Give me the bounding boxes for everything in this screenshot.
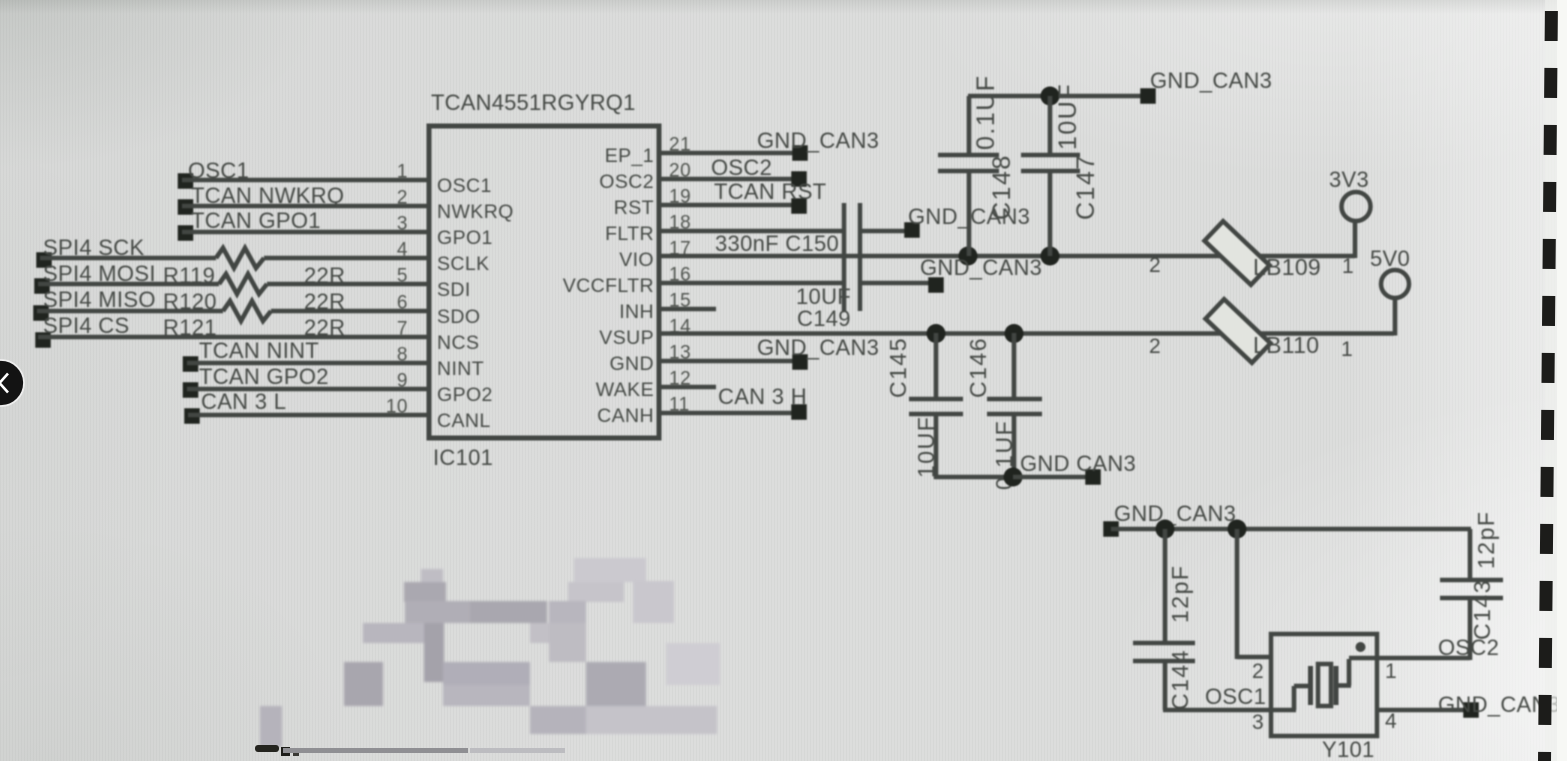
net label OSC2 crystal — [1438, 635, 1499, 660]
wire pin13 GND — [659, 359, 800, 364]
wire crystal pin4 ground — [1377, 708, 1464, 713]
capacitor C146 value label — [991, 420, 1017, 490]
wire pin5 SDI left — [38, 282, 219, 287]
node TCAN_GPO1 pad — [178, 225, 194, 241]
resistor R120 22R — [219, 274, 267, 294]
net label SPI4 MISO — [43, 287, 156, 312]
node C146 bottom junction — [1004, 468, 1023, 487]
wire pin2 NWKRQ — [182, 204, 429, 209]
net label GND_CAN3 pin13 — [757, 335, 879, 360]
node VSUP junction C146 — [1005, 324, 1024, 343]
ground GND_CAN3 pad bottom caps — [1085, 469, 1101, 485]
ground GND_CAN3 pad pin13 — [792, 354, 808, 370]
capacitor C143 12pF — [1440, 529, 1503, 660]
wire pin4 SCLK left — [40, 256, 216, 261]
capacitor C145 10UF — [909, 333, 963, 479]
net label OSC2 pin20 — [711, 155, 772, 180]
wire pin19 RST — [659, 203, 806, 208]
node TCAN_NINT pad — [183, 356, 199, 372]
capacitor C149 refdes — [797, 306, 851, 331]
resistor R120 refdes — [163, 289, 217, 314]
capacitor C147 refdes label — [1072, 154, 1100, 220]
net label GND_CAN3 top — [1150, 68, 1272, 93]
wire OSC1 to crystal pin3 — [1163, 708, 1271, 713]
crystal pin3 number — [1252, 711, 1264, 734]
wire pin17 VIO rail — [659, 254, 1355, 259]
net label TCAN NINT — [199, 338, 319, 363]
crystal Y101 pin1 dot — [1356, 642, 1366, 652]
net label CAN 3 H — [718, 384, 807, 409]
crystal Y101 symbol — [1273, 658, 1376, 710]
capacitor C148 0.1UF — [938, 96, 999, 256]
power 3V3 circle — [1342, 192, 1371, 221]
capacitor C144 12pF — [1133, 529, 1195, 710]
IC title TCAN4551RGYRQ1 — [431, 90, 636, 115]
wire crystal ground rail — [1111, 527, 1471, 532]
ferrite bead LB109 — [1204, 221, 1269, 285]
node OSC2 pad pin20 — [791, 171, 807, 187]
wire pin8 NINT — [187, 361, 429, 366]
wire pin1 OSC1 — [182, 178, 429, 183]
wire pin16 VCCFLTR — [659, 281, 844, 286]
node CAN_3_H pad — [791, 404, 807, 420]
net label GND CAN3 bottom caps — [1020, 451, 1136, 476]
capacitor C147 10UF — [1021, 96, 1080, 256]
ground GND_CAN3 pad C150 — [904, 222, 920, 238]
net label CAN 3 L — [201, 389, 286, 414]
net label OSC1 — [188, 158, 249, 183]
ground GND_CAN3 pad crystal pin4 — [1463, 702, 1479, 718]
IC pin names — [437, 145, 654, 432]
bottom-left stray marks — [255, 745, 565, 756]
node VSUP junction C145 — [927, 324, 946, 343]
node crystal rail junction C144 — [1156, 520, 1175, 539]
bead LB109 pin1 label — [1342, 255, 1354, 278]
power 5V0 label — [1370, 246, 1410, 271]
node OSC1 pad — [178, 173, 194, 189]
wire pin20 OSC2 — [659, 177, 806, 182]
op-amp IC101 TCAN4551 body — [429, 126, 659, 438]
net label GND_CAN3 crystal — [1114, 501, 1236, 526]
wire pin12 WAKE stub — [659, 385, 716, 390]
resistor R119 22R — [216, 248, 264, 268]
capacitor C143 refdes label — [1469, 579, 1495, 640]
net label GND_CAN3 crystal pin4 — [1438, 692, 1560, 717]
bead LB109 pin2 label — [1149, 254, 1161, 277]
wire C145 bottom — [934, 475, 1013, 480]
node TCAN_NWKRQ pad — [178, 199, 194, 215]
wire pin9 GPO2 — [187, 387, 429, 392]
resistor R120 value 22R — [304, 289, 345, 314]
wire pin4 SCLK right — [264, 256, 429, 261]
capacitor C144 refdes label — [1167, 649, 1193, 710]
crystal Y101 refdes — [1322, 737, 1375, 761]
wire pin18 FLTR — [659, 229, 844, 234]
page edge bright strip — [1545, 0, 1567, 761]
bead LB110 refdes — [1253, 332, 1319, 358]
node top rail junction — [1041, 87, 1060, 106]
net label GND_CAN3 C149 — [920, 255, 1042, 280]
capacitor C149 value 10UF — [796, 284, 851, 309]
capacitor C150 330nF plates — [844, 203, 860, 311]
bead LB110 pin2 label — [1149, 335, 1161, 358]
capacitor C148 refdes label — [988, 154, 1016, 220]
capacitor C144 value label — [1167, 565, 1193, 623]
wire pin21 EP_1 — [659, 151, 806, 156]
pixelated privacy blur mosaic — [260, 558, 720, 747]
net label TCAN NWKRQ — [191, 183, 344, 208]
power 5V0 circle — [1381, 270, 1409, 298]
ground GND_CAN3 pad crystal rail — [1103, 521, 1119, 537]
node crystal rail junction OSC1 — [1228, 520, 1247, 539]
power 5V0 stub — [1393, 298, 1398, 336]
ground GND_CAN3 pad C149 — [928, 277, 944, 293]
resistor R119 value 22R — [304, 263, 345, 288]
wire pin6 SDO left — [37, 309, 223, 314]
wire pin10 CANL — [188, 413, 429, 418]
node SPI4_MOSI pad — [34, 278, 50, 294]
crystal pin1 number — [1385, 660, 1397, 683]
ferrite bead LB110 — [1205, 299, 1270, 363]
capacitor C143 value label — [1473, 511, 1499, 569]
node SPI4_CS pad — [35, 332, 51, 348]
capacitor C148 value label — [972, 74, 1000, 150]
back button circle UI overlay — [0, 360, 24, 406]
wire bottom caps to ground — [1013, 475, 1087, 480]
net label GND_CAN3 C150 — [908, 204, 1030, 229]
node TCAN_RST pad — [791, 198, 807, 214]
wire pin15 INH stub — [659, 307, 716, 312]
net label TCAN GPO1 — [191, 208, 321, 233]
wire pin7 NCS — [38, 335, 429, 340]
wire pin5 SDI right — [267, 282, 429, 287]
power 3V3 stub — [1353, 221, 1358, 258]
wire pin3 GPO1 — [182, 230, 429, 235]
wire pin6 SDO right — [271, 309, 429, 314]
wire C149 to ground — [860, 281, 936, 286]
capacitor C145 refdes label — [885, 337, 911, 398]
dashed page border — [1545, 0, 1552, 761]
node TCAN_GPO2 pad — [183, 382, 199, 398]
bead LB110 pin1 label — [1341, 338, 1353, 361]
wire C150 to ground — [860, 229, 912, 234]
resistor R121 22R — [223, 301, 271, 321]
capacitor C145 value label — [913, 416, 939, 478]
wire pin14 VSUP rail — [659, 331, 1394, 336]
node VIO junction C148 — [959, 247, 978, 266]
wire top ground rail — [968, 94, 1142, 99]
net label SPI4 MOSI — [43, 261, 156, 286]
resistor R121 value 22R — [304, 315, 345, 340]
bead LB109 refdes — [1253, 254, 1321, 280]
capacitor C147 value label — [1054, 83, 1082, 150]
IC refdes IC101 — [433, 445, 493, 470]
wire crystal pin1 OSC2 — [1375, 656, 1470, 661]
capacitor C146 refdes label — [965, 337, 991, 398]
wire rail to crystal pin2 — [1237, 529, 1271, 659]
capacitor C146 0.1UF — [987, 333, 1042, 477]
ground GND_CAN3 pad pin21 — [792, 145, 808, 161]
crystal Y101 body — [1271, 634, 1377, 736]
net label TCAN GPO2 — [199, 364, 329, 389]
net label SPI4 SCK — [43, 235, 144, 260]
net label OSC1 crystal — [1205, 684, 1266, 709]
node SPI4_SCK pad — [36, 252, 52, 268]
resistor R119 refdes — [163, 263, 215, 288]
crystal pin2 number — [1252, 660, 1264, 683]
resistor R121 refdes — [163, 315, 217, 340]
net label TCAN RST — [714, 179, 826, 204]
node CAN_3_L pad — [184, 408, 200, 424]
net label GND_CAN3 pin21 — [757, 128, 879, 153]
crystal pin4 number — [1385, 710, 1397, 733]
capacitor C150 value — [715, 231, 839, 256]
power 3V3 label — [1329, 167, 1369, 192]
net label SPI4 CS — [43, 313, 129, 338]
node VIO junction C147 — [1041, 247, 1060, 266]
node SPI4_MISO pad — [33, 305, 49, 321]
ground GND_CAN3 pad top rail — [1140, 88, 1156, 104]
wire pin11 CANH — [659, 411, 806, 416]
IC pin numbers — [386, 135, 691, 418]
